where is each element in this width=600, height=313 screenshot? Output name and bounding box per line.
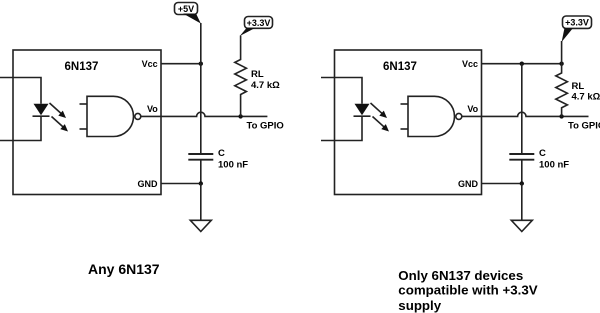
junction dot GND node (left) <box>199 181 203 185</box>
wire: Vcc pin rail to +3.3V (right) <box>482 63 562 65</box>
gate output bubble (left) <box>135 113 141 119</box>
caption: Only 6N137 devices compatible with +3.3V supply <box>398 268 537 313</box>
junction dot at capacitor branch (right) <box>520 62 524 66</box>
svg-text:compatible with +3.3V: compatible with +3.3V <box>398 283 537 298</box>
svg-text:RL: RL <box>251 69 264 80</box>
svg-text:6N137: 6N137 <box>65 61 99 73</box>
svg-text:GND: GND <box>458 179 479 189</box>
wire: +5V vertical down to capacitor (left) <box>200 23 202 154</box>
wire: capacitor bottom to GND rail (left) <box>200 160 202 184</box>
ground symbol (left) <box>190 220 211 231</box>
wire: GND pin to ground (right) <box>482 183 522 185</box>
wire: left input anode (left) <box>0 78 41 104</box>
svg-text:GND: GND <box>138 179 159 189</box>
junction dot Vo/RL node (left) <box>238 114 242 118</box>
wire: Vo output with hop over cap branch (right) <box>462 112 589 116</box>
+3.3V supply flag (left) <box>240 17 273 37</box>
wire: input cathode stub (right) <box>321 116 362 140</box>
capacitor C plates (left) <box>188 154 213 160</box>
wire: capacitor bottom to GND rail (right) <box>521 160 523 184</box>
svg-text:Vcc: Vcc <box>142 59 158 69</box>
NAND gate body (right) <box>408 96 454 136</box>
gate input stub upper (left) <box>80 103 88 105</box>
svg-text:Vo: Vo <box>147 104 158 114</box>
svg-text:To GPIO: To GPIO <box>568 121 600 132</box>
svg-text:C: C <box>218 148 225 159</box>
NAND gate body (left) <box>87 96 133 136</box>
svg-text:+3.3V: +3.3V <box>247 18 271 28</box>
wire: Vcc pin to +5V node (left) <box>161 63 201 65</box>
light arrow 1 (right) <box>371 103 388 118</box>
svg-text:100 nF: 100 nF <box>539 160 569 171</box>
gate output bubble (right) <box>456 113 462 119</box>
svg-text:supply: supply <box>398 298 441 313</box>
junction dot Vo/RL node (right) <box>559 114 563 118</box>
wire: +3.3V vertical to Vcc rail (right) <box>561 41 563 64</box>
LED D2 inside optocoupler (right) <box>354 104 371 117</box>
wire: input anode stub (right) <box>321 78 362 104</box>
svg-text:Any 6N137: Any 6N137 <box>88 261 160 277</box>
svg-text:C: C <box>539 148 546 159</box>
wire: left input cathode (left) <box>0 116 41 140</box>
wire: down to ground symbol (left) <box>200 184 202 221</box>
svg-text:Vcc: Vcc <box>462 59 478 69</box>
resistor RL (left) <box>235 36 247 117</box>
light arrow 2 (left) <box>52 117 69 132</box>
svg-text:100 nF: 100 nF <box>218 160 248 171</box>
wire: Vo output with hop over Vcc wire (left) <box>141 112 268 116</box>
svg-text:6N137: 6N137 <box>383 61 417 73</box>
junction dot Vcc node (left) <box>199 62 203 66</box>
svg-text:+5V: +5V <box>178 4 194 14</box>
ground symbol (right) <box>511 220 532 231</box>
svg-text:Vo: Vo <box>467 104 478 114</box>
LED D1 inside optocoupler (left) <box>33 104 50 117</box>
capacitor C plates (right) <box>509 154 534 160</box>
optocoupler U1 package box 6N137 (left) <box>13 50 161 195</box>
junction dot at RL branch (right) <box>559 62 563 66</box>
svg-text:4.7 kΩ: 4.7 kΩ <box>251 80 280 91</box>
wire: GND pin to ground (left) <box>161 183 201 185</box>
svg-text:RL: RL <box>572 81 585 92</box>
gate input stub lower (left) <box>80 128 88 130</box>
+3.3V supply flag (right) <box>562 16 592 42</box>
svg-text:+3.3V: +3.3V <box>565 18 589 28</box>
+5V supply flag (left) <box>175 3 201 24</box>
svg-text:4.7 kΩ: 4.7 kΩ <box>572 92 600 103</box>
junction dot GND node (right) <box>520 181 524 185</box>
gate input stub lower (right) <box>401 128 409 130</box>
light arrow 2 (right) <box>373 117 390 132</box>
gate input stub upper (right) <box>401 103 409 105</box>
svg-text:Only 6N137 devices: Only 6N137 devices <box>398 268 523 283</box>
optocoupler U2 package box 6N137 (right) <box>335 50 482 195</box>
wire: Vcc rail vertical down to capacitor (right) <box>521 64 523 154</box>
resistor RL (right) <box>556 64 568 117</box>
wire: down to ground symbol (right) <box>521 184 523 221</box>
light arrow 1 (left) <box>50 103 67 118</box>
svg-text:To GPIO: To GPIO <box>247 121 284 132</box>
